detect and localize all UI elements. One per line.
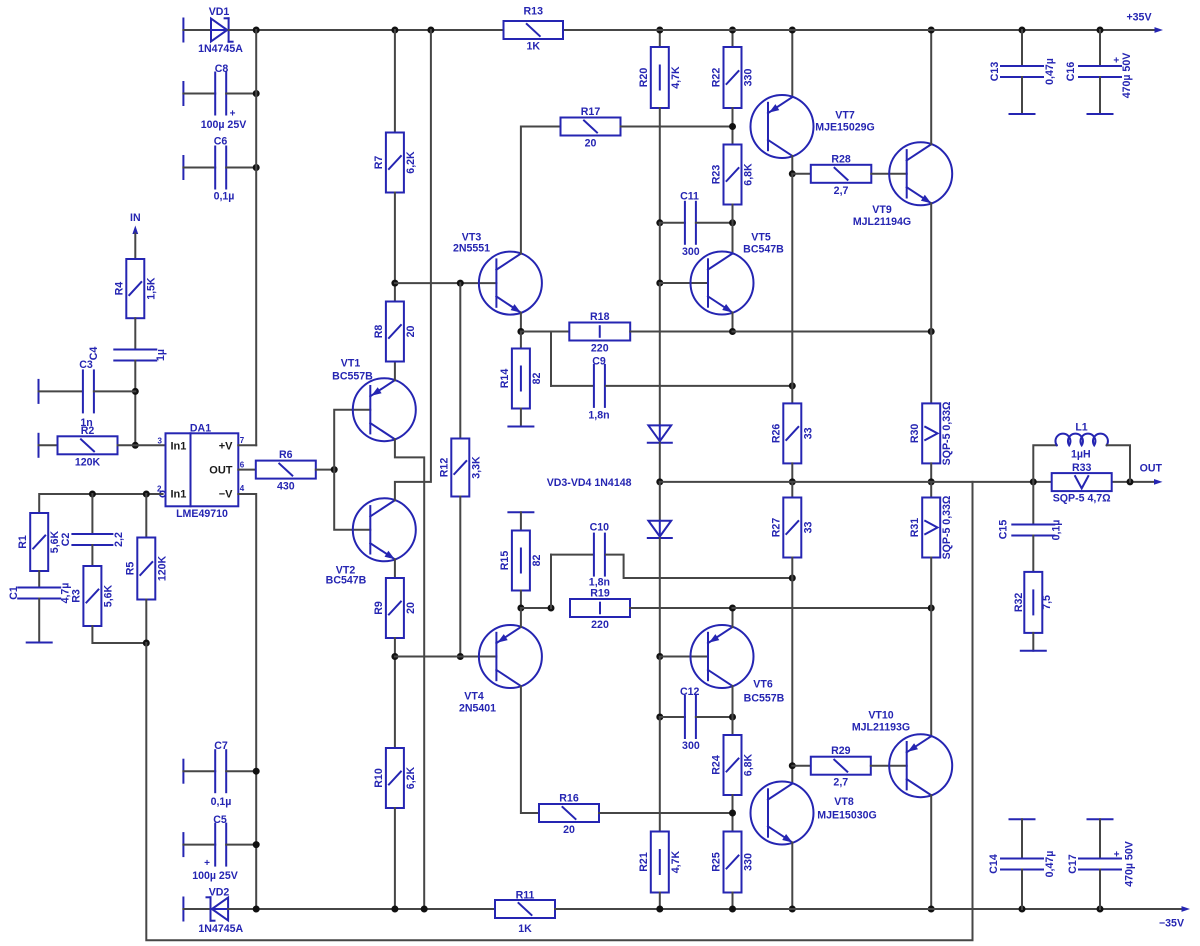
resistor R11 1K: [495, 900, 555, 918]
wire VT6 emitter row to VT10: [733, 607, 932, 609]
svg-text:1N4745A: 1N4745A: [198, 43, 243, 55]
svg-text:20: 20: [405, 602, 417, 614]
svg-text:33: 33: [802, 522, 814, 534]
wire R28 left lead: [792, 173, 811, 175]
wire C17 to rail: [1099, 870, 1101, 910]
svg-text:C11: C11: [680, 191, 699, 203]
node VT6 emitter: [729, 605, 736, 612]
transistor VT2 BC547B: [353, 498, 416, 561]
wire C7 left lead: [183, 770, 215, 772]
wire C11 node to VT5 base: [659, 223, 661, 283]
wire VD2 anode lead: [183, 908, 211, 910]
svg-text:4,7K: 4,7K: [670, 66, 682, 89]
wire R10 to rail: [394, 808, 396, 909]
svg-text:MJL21194G: MJL21194G: [853, 216, 911, 228]
wire C9 row left: [551, 385, 593, 387]
capacitor C8 terminal bar: [182, 82, 184, 105]
svg-text:0,1µ: 0,1µ: [211, 796, 232, 808]
svg-text:+: +: [1113, 56, 1119, 67]
wire R21 to rail: [659, 893, 661, 910]
wire rail to VT7 emitter: [791, 30, 793, 97]
svg-text:VT10: VT10: [868, 710, 893, 722]
svg-text:33: 33: [802, 427, 814, 439]
svg-text:R28: R28: [831, 153, 851, 165]
node OUT arrow: [1154, 479, 1163, 485]
wire C13 top lead: [1021, 30, 1023, 66]
diode VD2 terminal bar: [182, 898, 184, 921]
node R12 top: [457, 280, 464, 287]
resistor R24 6,8K: [724, 735, 742, 795]
svg-text:R14: R14: [499, 369, 511, 389]
svg-text:R16: R16: [559, 793, 579, 805]
wire VT7 collector node down: [791, 174, 793, 386]
capacitor C3 1n: [82, 370, 84, 412]
svg-text:+: +: [230, 109, 236, 120]
svg-text:470µ 50V: 470µ 50V: [1124, 841, 1136, 887]
node VT1/VT2 base node: [331, 466, 338, 473]
svg-text:1,8n: 1,8n: [588, 410, 609, 422]
resistor R22 330: [724, 47, 742, 108]
capacitor C10 1,8n: [593, 534, 595, 576]
svg-text:MJE15030G: MJE15030G: [817, 810, 876, 822]
capacitor C7 0,1u: [214, 750, 216, 792]
wire R25 to rail: [732, 893, 734, 910]
wire pin2 row: [39, 494, 162, 513]
wire C5 left lead: [183, 844, 215, 846]
node R5 top: [143, 491, 150, 498]
svg-text:4,7K: 4,7K: [670, 850, 682, 873]
svg-text:MJE15029G: MJE15029G: [815, 122, 874, 134]
wire DA1 pin7 to +V rail: [238, 444, 256, 446]
wire R1 to C1: [38, 571, 40, 588]
wire base node to VT2: [334, 470, 370, 530]
ground R14: [508, 426, 533, 428]
capacitor C8 100u 25V: [214, 73, 216, 115]
node R25 rail: [729, 906, 736, 913]
wire R9 to R10: [394, 638, 396, 748]
svg-text:C5: C5: [213, 814, 227, 826]
wire VT4 emitter to R16: [521, 686, 539, 813]
wire C6 right lead: [226, 167, 256, 169]
resistor R6 430: [256, 461, 316, 479]
resistor R9 20: [386, 578, 404, 638]
wire R6 to base node: [316, 469, 334, 471]
svg-text:BC547B: BC547B: [743, 244, 784, 256]
transistor VT10 MJL21193G: [889, 734, 952, 797]
capacitor C11 300: [660, 222, 685, 224]
capacitor C16 470u 50V: [1079, 65, 1121, 67]
op-amp DA1 LME49710: [166, 433, 239, 506]
svg-text:VD2: VD2: [209, 887, 230, 899]
wire R15 to node: [520, 591, 522, 609]
wire R29 left lead: [792, 765, 811, 767]
node C12 right: [729, 714, 736, 721]
wire VT6 collector: [732, 686, 734, 717]
node L1 right: [1127, 478, 1134, 485]
node R9/R10/VT4 base: [391, 653, 398, 660]
svg-text:R10: R10: [373, 768, 385, 788]
node R30 top / VT9 emitter: [928, 328, 935, 335]
wire DA1 pin6 to R6: [238, 469, 256, 471]
node feedback node: [143, 640, 150, 647]
svg-text:4: 4: [240, 484, 245, 493]
svg-text:R32: R32: [1013, 593, 1025, 613]
node VT8 base: [729, 810, 736, 817]
wire R28 to VT9 base: [871, 173, 906, 175]
svg-text:In1: In1: [171, 489, 187, 501]
node VT7 base: [729, 123, 736, 130]
wire C8 right lead: [226, 93, 256, 95]
transistor VT3 2N5551: [479, 252, 542, 315]
svg-text:7: 7: [240, 436, 245, 445]
capacitor C6 0,1u: [214, 147, 216, 189]
svg-text:SQP-5 0,33Ω: SQP-5 0,33Ω: [941, 495, 953, 559]
svg-text:−35V: −35V: [1159, 918, 1184, 930]
node R29 / VT8 collector: [789, 762, 796, 769]
wire C14 to rail: [1021, 870, 1023, 910]
wire VT2 collector up: [395, 30, 431, 500]
capacitor C7 terminal bar: [182, 760, 184, 783]
svg-text:R24: R24: [711, 755, 723, 775]
transistor VT6 BC557B: [691, 625, 754, 688]
ground C1: [27, 642, 52, 644]
svg-text:330: 330: [743, 69, 755, 87]
svg-text:C15: C15: [998, 520, 1010, 540]
wire bottom rail VD2 to R11: [228, 908, 495, 910]
svg-text:R6: R6: [279, 449, 293, 461]
node C9 / R26 top: [789, 382, 796, 389]
svg-text:C1: C1: [8, 586, 20, 600]
svg-text:1K: 1K: [526, 40, 540, 52]
node C13 rail: [1019, 27, 1026, 34]
svg-text:2,2: 2,2: [113, 532, 125, 547]
svg-text:BC547B: BC547B: [326, 575, 367, 587]
node C5 / -V rail: [253, 841, 260, 848]
capacitor C12 300: [660, 716, 685, 718]
svg-text:R3: R3: [70, 589, 82, 603]
resistor R32 7,5: [1024, 572, 1042, 633]
svg-text:R21: R21: [638, 852, 650, 872]
node R7 top rail: [391, 27, 398, 34]
wire VT5 emitter: [732, 313, 734, 332]
capacitor C17 470u 50V: [1079, 858, 1121, 860]
wire R30 to bus: [930, 463, 932, 482]
svg-text:SQP-5 0,33Ω: SQP-5 0,33Ω: [941, 401, 953, 465]
svg-text:120K: 120K: [75, 456, 101, 468]
transistor VT4 2N5401: [479, 625, 542, 688]
resistor R2 terminal bar: [38, 434, 40, 457]
wire VT9 emitter down: [930, 203, 932, 331]
svg-text:20: 20: [405, 326, 417, 338]
svg-text:+: +: [204, 858, 210, 869]
svg-text:3: 3: [158, 437, 163, 446]
svg-text:VT5: VT5: [751, 232, 771, 244]
transistor VT8 MJE15030G: [751, 782, 814, 845]
svg-text:R15: R15: [499, 551, 511, 571]
svg-text:100µ 25V: 100µ 25V: [192, 870, 238, 882]
resistor R14 82: [520, 332, 522, 349]
resistor R20 4,7K: [651, 47, 669, 108]
resistor R1 5,6K: [30, 513, 48, 571]
node R20 rail: [656, 27, 663, 34]
svg-text:7,5: 7,5: [1041, 595, 1053, 610]
svg-text:R25: R25: [711, 852, 723, 872]
diode VD4 1N4148: [648, 521, 671, 537]
node +35V arrow: [1155, 27, 1164, 33]
node R26/R27 bus: [789, 478, 796, 485]
capacitor C5 100u 25V: [214, 824, 216, 866]
node C10 / R27 bottom: [789, 575, 796, 582]
wire VT5 base lead: [660, 282, 708, 284]
svg-text:BC557B: BC557B: [332, 371, 373, 383]
svg-text:R27: R27: [770, 518, 782, 538]
svg-text:In1: In1: [171, 440, 187, 452]
transistor VT5 BC547B: [691, 252, 754, 315]
wire R31 to VT10 emitter: [930, 558, 932, 609]
resistor R10 6,2K: [386, 748, 404, 808]
ground R15: [508, 511, 533, 513]
svg-text:+35V: +35V: [1126, 12, 1151, 24]
wire R3 to feedback node: [92, 626, 146, 643]
wire VT3 collector to R17: [521, 127, 561, 254]
svg-text:IN: IN: [130, 212, 141, 224]
wire C6 left lead: [183, 167, 215, 169]
resistor R25 330: [724, 832, 742, 893]
node R21 rail: [656, 906, 663, 913]
capacitor C14 0,47u: [1001, 858, 1043, 860]
wire C9 left branch: [550, 332, 552, 386]
svg-text:R23: R23: [711, 165, 723, 185]
svg-text:VT4: VT4: [464, 691, 484, 703]
svg-text:SQP-5 4,7Ω: SQP-5 4,7Ω: [1053, 493, 1111, 505]
node C2 top: [89, 491, 96, 498]
wire R16 to VT8 base: [599, 812, 733, 814]
wire R22 to VT7 base node: [732, 108, 734, 145]
wire bus right of R33: [1112, 481, 1157, 483]
node C10 left: [548, 605, 555, 612]
svg-text:2N5401: 2N5401: [459, 703, 496, 715]
wire C3 right lead: [94, 390, 135, 392]
svg-text:R8: R8: [373, 325, 385, 339]
svg-text:R1: R1: [17, 535, 29, 549]
wire rail to R22: [732, 30, 734, 47]
svg-text:82: 82: [531, 555, 543, 567]
svg-text:R26: R26: [770, 424, 782, 444]
svg-text:1K: 1K: [518, 923, 532, 935]
wire R12 bottom lead: [459, 497, 461, 657]
svg-text:1µH: 1µH: [1071, 449, 1091, 461]
svg-text:VD1: VD1: [209, 6, 230, 18]
svg-text:OUT: OUT: [209, 464, 233, 476]
svg-text:6,8K: 6,8K: [743, 753, 755, 776]
wire IN to R4: [134, 234, 136, 260]
wire C3 left lead: [39, 390, 83, 392]
wire VD1 anode lead: [183, 29, 211, 31]
pin 2 inversion circle: [160, 491, 166, 497]
inductor L1 1uH: [1033, 445, 1056, 482]
wire R14 to ground: [520, 409, 522, 427]
wire C2 to R3: [91, 545, 93, 566]
svg-text:L1: L1: [1075, 422, 1087, 434]
wire VD3 to output bus: [659, 443, 661, 482]
wire R24 to VT8 base node: [732, 795, 734, 832]
wire VT5 base node down to VD3: [659, 283, 661, 425]
node R15 / VT4 collector / R19 row: [517, 605, 524, 612]
node bias midpoint on bus: [656, 478, 663, 485]
resistor R5 120K: [145, 494, 147, 538]
resistor R31 SQP-5 0,33: [930, 482, 932, 498]
wire rail to R20: [659, 30, 661, 47]
node VT10 collector rail: [928, 906, 935, 913]
wire VT2 emitter to R9: [394, 559, 396, 578]
wire R7 to R8: [394, 193, 396, 302]
wire R17 to VT7 base: [621, 126, 733, 128]
wire node to R18: [521, 331, 569, 333]
svg-text:1N4745A: 1N4745A: [198, 923, 243, 935]
ground C13: [1010, 113, 1035, 115]
node C12 left: [656, 714, 663, 721]
svg-text:0,47µ: 0,47µ: [1044, 851, 1056, 878]
svg-text:20: 20: [563, 824, 575, 836]
node -35V arrow: [1182, 906, 1191, 912]
resistor R16 20: [539, 804, 599, 822]
diode VD1 (zener 1N4745A) terminal bar: [182, 19, 184, 42]
resistor R7 6,2K: [386, 133, 404, 193]
node C11 right: [729, 219, 736, 226]
ground C16: [1088, 113, 1113, 115]
node R31 bottom / VT10 emitter: [928, 605, 935, 612]
node IN arrow: [132, 226, 138, 235]
resistor R13 1K: [504, 21, 564, 39]
svg-text:OUT: OUT: [1140, 463, 1163, 475]
transistor VT7 MJE15029G: [751, 95, 814, 158]
svg-text:C9: C9: [592, 356, 606, 368]
node C11 left: [656, 219, 663, 226]
svg-text:6: 6: [240, 460, 245, 469]
svg-text:220: 220: [591, 343, 609, 355]
capacitor C6 terminal bar: [182, 156, 184, 179]
wire R2 left lead: [39, 444, 58, 446]
node R2 / DA1 pin3 junction: [132, 442, 139, 449]
wire top rail right: [563, 29, 1157, 31]
svg-text:C6: C6: [214, 136, 228, 148]
wire C10 row left: [551, 554, 593, 556]
svg-text:+V: +V: [219, 440, 233, 452]
capacitor C2 2,2: [91, 494, 93, 534]
wire R19 to VT6 emitter node: [630, 607, 733, 609]
wire R23 to VT5 collector: [732, 205, 734, 254]
svg-text:VT7: VT7: [835, 110, 855, 122]
wire C12 right to R24: [732, 717, 734, 735]
diode VD1 zener 1N4745A: [211, 19, 227, 42]
svg-text:VT6: VT6: [753, 679, 773, 691]
svg-text:330: 330: [743, 853, 755, 871]
svg-text:6,8K: 6,8K: [743, 163, 755, 186]
wire VT10 emitter up: [930, 608, 932, 736]
wire VT4 collector: [520, 608, 522, 627]
capacitor C1 4,7u: [18, 587, 60, 589]
svg-text:C12: C12: [680, 686, 700, 698]
transistor VT9 MJL21194G: [889, 142, 952, 205]
resistor R3 5,6K: [83, 566, 101, 626]
capacitor C15 0,1u: [1032, 482, 1034, 525]
node L1 left: [1030, 478, 1037, 485]
wire top rail VD1 to R13: [229, 29, 504, 31]
svg-text:300: 300: [682, 246, 700, 258]
resistor R30 SQP-5 0,33: [930, 332, 932, 404]
svg-text:2,7: 2,7: [834, 185, 849, 197]
ground R32: [1021, 650, 1046, 652]
node VD1 cathode / +rail: [253, 27, 260, 34]
wire R26 to bus: [791, 463, 793, 482]
svg-text:R7: R7: [373, 156, 385, 170]
node C7 / -V rail: [253, 768, 260, 775]
node R30/R31 bus: [928, 478, 935, 485]
svg-text:R33: R33: [1072, 462, 1092, 474]
resistor R27 33: [791, 482, 793, 498]
wire R32 to ground: [1032, 633, 1034, 651]
svg-text:470µ 50V: 470µ 50V: [1121, 53, 1133, 99]
wire C12 node to R21: [659, 717, 661, 832]
svg-text:0,1µ: 0,1µ: [1051, 520, 1063, 541]
node VT9 collector rail: [928, 27, 935, 34]
wire VT7 collector: [791, 156, 793, 174]
node VT5 emitter: [729, 328, 736, 335]
node VT2 collector rail: [427, 27, 434, 34]
resistor R33 SQP-5 4,7: [1052, 473, 1112, 491]
svg-text:3,3K: 3,3K: [470, 456, 482, 479]
node VT6 base: [656, 653, 663, 660]
wire R29 to VT10 base: [871, 765, 907, 767]
wire bus to VD4: [659, 482, 661, 521]
diode VD2 zener 1N4745A: [212, 898, 228, 921]
wire rail to R7: [394, 30, 396, 133]
svg-text:C8: C8: [215, 63, 229, 75]
wire C5 right lead: [226, 844, 256, 846]
svg-text:R29: R29: [831, 745, 851, 757]
svg-text:−V: −V: [219, 488, 233, 500]
wire R12 top lead: [459, 283, 461, 438]
svg-text:220: 220: [591, 619, 609, 631]
wire +V vertical rail to DA1 pin7: [255, 30, 257, 445]
wire VD4 to VT6 base: [659, 538, 661, 657]
wire C16 top lead: [1099, 30, 1101, 66]
resistor R12 3,3K: [451, 439, 469, 497]
wire base row to VT4: [395, 656, 497, 658]
svg-text:C7: C7: [214, 740, 228, 752]
svg-text:VT9: VT9: [872, 204, 892, 216]
svg-text:BC557B: BC557B: [744, 693, 785, 705]
wire VT10 collector to rail: [930, 795, 932, 909]
node C6 / +V rail: [253, 164, 260, 171]
wire VT6 emitter: [732, 608, 734, 627]
wire VT6 base lead: [660, 656, 708, 658]
svg-text:VT1: VT1: [341, 358, 361, 370]
resistor R4 1,5K: [126, 259, 144, 318]
node R10 rail: [391, 906, 398, 913]
node C8 / +V rail: [253, 90, 260, 97]
node R7/R8/VT3 base: [391, 280, 398, 287]
wire C1 to ground: [38, 599, 40, 643]
svg-text:C14: C14: [988, 854, 1000, 874]
svg-text:6,2K: 6,2K: [405, 151, 417, 174]
svg-text:2N5551: 2N5551: [453, 243, 490, 255]
capacitor C13 0,47u: [1001, 65, 1043, 67]
node R12 bottom: [457, 653, 464, 660]
wire C8 left lead: [183, 93, 215, 95]
wire base row to VT3: [395, 282, 497, 284]
transistor VT1 BC557B: [353, 378, 416, 441]
